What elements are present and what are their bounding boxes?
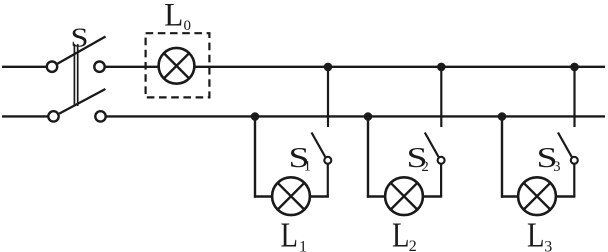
wire branch 3 lamp right lead: [556, 195, 575, 197]
wire branch 2 drop from top rail: [440, 67, 442, 127]
wire top rail left segment: [2, 66, 47, 68]
wire top rail right segment: [194, 66, 606, 68]
lamp L3: [518, 177, 556, 215]
node junction top 2: [437, 63, 446, 72]
svg-text:L: L: [392, 216, 410, 252]
lamp L0: [159, 48, 195, 84]
node junction bottom 3: [498, 112, 507, 121]
svg-text:2: 2: [422, 159, 429, 175]
wire branch 1 riser from bottom rail: [254, 116, 256, 197]
wire branch 3 lamp left lead: [501, 195, 518, 197]
lamp L2: [385, 177, 423, 215]
switch S1: [312, 133, 332, 197]
wire branch 1 drop from top rail: [327, 67, 329, 127]
wire branch 2 lamp left lead: [367, 195, 385, 197]
svg-text:S: S: [71, 22, 89, 52]
wire bottom rail right segment: [106, 115, 605, 117]
svg-text:0: 0: [184, 18, 192, 34]
node junction top 1: [324, 63, 333, 72]
wire branch 3 drop from top rail: [573, 67, 575, 127]
wire top rail between switch and lamp L0: [105, 66, 160, 68]
wire branch 1 lamp left lead: [254, 195, 272, 197]
node junction bottom 2: [364, 112, 373, 121]
svg-text:1: 1: [304, 158, 311, 174]
wire branch 3 riser from bottom rail: [501, 116, 503, 197]
node junction top 3: [570, 63, 579, 72]
node junction bottom 1: [251, 112, 260, 121]
svg-text:L: L: [281, 216, 299, 252]
switch S3: [558, 133, 578, 197]
switch S2: [425, 133, 445, 197]
switch S (double-pole): [47, 37, 106, 122]
wire bottom rail left segment: [2, 115, 49, 117]
wire branch 1 lamp right lead: [310, 195, 329, 197]
svg-text:3: 3: [553, 159, 560, 175]
svg-text:L: L: [527, 216, 545, 252]
svg-text:3: 3: [544, 239, 552, 252]
svg-text:1: 1: [299, 239, 307, 252]
wire branch 2 riser from bottom rail: [367, 116, 369, 197]
wire branch 2 lamp right lead: [423, 195, 442, 197]
svg-text:L: L: [164, 0, 183, 34]
lamp L0 dashed box: [146, 33, 210, 97]
lamp L1: [272, 177, 310, 215]
svg-text:2: 2: [409, 238, 417, 252]
